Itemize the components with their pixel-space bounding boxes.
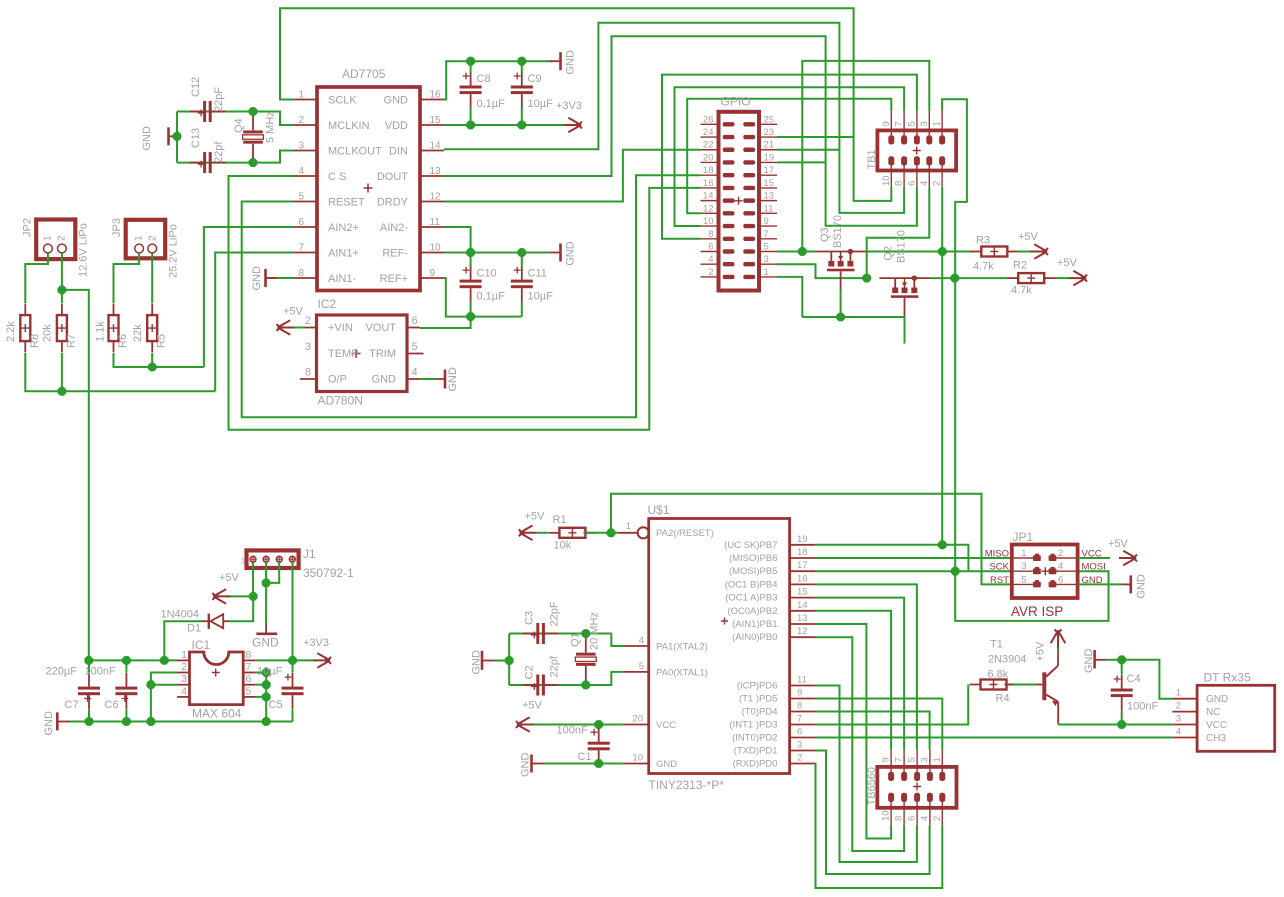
pin 4 DT Rx35 CH3 xyxy=(1172,737,1197,739)
pin 19 U$1 (UC SK)PB7 xyxy=(790,544,815,546)
svg-text:9: 9 xyxy=(764,216,769,227)
wire emitter rail to DT Rx35 VCC xyxy=(1058,724,1172,726)
wire TB1 pin10 to GPIO23 net xyxy=(854,137,892,201)
svg-text:11: 11 xyxy=(430,217,441,228)
svg-text:2: 2 xyxy=(1176,701,1181,712)
wire pin2 to TB6560 pin2 xyxy=(815,764,942,889)
svg-text:6: 6 xyxy=(797,727,802,738)
svg-text:16: 16 xyxy=(703,178,714,189)
capacitor C13 xyxy=(203,152,206,173)
svg-text:6: 6 xyxy=(906,181,917,186)
wire GPIO pin23 to junction xyxy=(777,136,854,138)
pin 11 AD7705 AIN2- xyxy=(420,226,444,228)
svg-text:C6: C6 xyxy=(105,699,119,711)
power +5V arrow near J1 xyxy=(212,589,230,604)
pin 10 AD7705 REF- xyxy=(420,252,444,254)
wire J1 pin2 to GND xyxy=(265,562,267,622)
svg-text:1: 1 xyxy=(932,757,943,762)
junction dot R7 bottom xyxy=(58,387,67,396)
wire J1 pin4 to +3V3 rail xyxy=(292,562,294,660)
pin 1 TB6560 top pad xyxy=(939,772,945,781)
wire Q2 drain row to R2 xyxy=(930,277,1007,279)
svg-text:J1: J1 xyxy=(303,547,316,561)
pin 2 GPIO left pad xyxy=(701,276,719,278)
svg-text:21: 21 xyxy=(764,140,775,151)
power +5V at R2 xyxy=(1069,271,1087,286)
svg-text:DOUT: DOUT xyxy=(377,171,408,183)
svg-text:JP3: JP3 xyxy=(111,218,123,237)
svg-text:GND: GND xyxy=(251,266,263,291)
pin 21 GPIO right pad xyxy=(759,149,777,151)
svg-text:20: 20 xyxy=(632,714,643,725)
wire TB1 pin4 to Q2 drain net xyxy=(867,188,930,279)
svg-text:(TXD)PD1: (TXD)PD1 xyxy=(734,746,778,757)
wire AD7705 pin9 REF+ down to bottom rail xyxy=(444,278,522,317)
wire C12 row to crystal top node and AD7705 pin2 xyxy=(177,111,253,113)
pin 2 U$1 (RXD)PD0 xyxy=(790,763,815,765)
pin 3 TB1 top pad xyxy=(926,135,932,144)
pin 4 IC2 GND xyxy=(407,378,420,380)
pin 7 GPIO right pad xyxy=(759,238,777,240)
pin 4 U$1 PA1(XTAL2) xyxy=(623,645,648,647)
svg-text:6: 6 xyxy=(246,673,252,685)
svg-text:2: 2 xyxy=(57,235,68,241)
svg-text:19: 19 xyxy=(797,534,808,545)
svg-text:3: 3 xyxy=(181,673,187,685)
svg-text:(T1 )PD5: (T1 )PD5 xyxy=(739,694,778,705)
pin 6 TB1 bottom pad xyxy=(914,156,920,165)
resistor R4 6.8k xyxy=(981,680,1007,690)
wire C9 rail connectors xyxy=(521,61,523,72)
svg-text:12: 12 xyxy=(430,192,442,203)
pin 8 TB1 bottom pad xyxy=(901,156,907,165)
wire AD7705 pin16 to C8/C9 GND rail xyxy=(444,61,552,99)
svg-text:C9: C9 xyxy=(528,73,542,85)
svg-text:10: 10 xyxy=(430,243,442,254)
svg-text:8: 8 xyxy=(305,367,311,379)
pin 8 IC2 O/P xyxy=(300,378,317,380)
junction dots C8/C9 rails xyxy=(466,57,475,66)
svg-text:3: 3 xyxy=(298,141,304,152)
junction dot pin19/SCK xyxy=(938,540,947,549)
svg-text:10µF: 10µF xyxy=(257,666,283,678)
wire +5V arrow to junction xyxy=(226,595,253,597)
wire left vertical joining C12/C13 xyxy=(176,112,178,163)
junction dot C4 bottom xyxy=(1117,720,1126,729)
svg-text:16: 16 xyxy=(797,573,808,584)
junction dots on +3V3 rail xyxy=(84,656,93,665)
wire AD7705 pin11 AIN2- to REF- rail xyxy=(444,227,471,253)
svg-text:C13: C13 xyxy=(190,128,202,148)
wire GND to DT Rx35 pin1 xyxy=(1122,660,1173,699)
wire GND bottom rail xyxy=(70,721,293,723)
pin 26 GPIO left pad xyxy=(701,123,719,125)
op-amp IC2 AD780N voltage reference box xyxy=(317,315,408,392)
power +5V at JP1 VCC xyxy=(1078,557,1110,559)
svg-text:1: 1 xyxy=(241,557,246,566)
capacitor C10 xyxy=(460,280,482,283)
svg-text:DIN: DIN xyxy=(389,145,408,157)
svg-text:C3: C3 xyxy=(524,611,536,625)
svg-text:15: 15 xyxy=(430,115,442,126)
svg-text:6: 6 xyxy=(412,315,418,327)
wire R6/R5 bottoms to AIN2+ net xyxy=(114,353,204,367)
svg-text:AIN2-: AIN2- xyxy=(380,222,408,234)
resistor R5 22k xyxy=(147,315,157,341)
pin 22 GPIO left pad xyxy=(701,149,719,151)
svg-text:7: 7 xyxy=(246,661,252,673)
wire TB1 pin8 to GPIO21 net xyxy=(839,150,904,213)
svg-text:22: 22 xyxy=(703,140,714,151)
svg-text:1: 1 xyxy=(626,521,631,532)
pin 19 GPIO right pad xyxy=(759,161,777,163)
capacitor C7 220uF xyxy=(78,687,100,690)
svg-text:1: 1 xyxy=(764,267,769,278)
wire D1 cathode to IC1 pin1 rail xyxy=(164,621,201,660)
capacitor C2 xyxy=(536,675,539,696)
svg-text:22k: 22k xyxy=(132,324,144,342)
transistor T1 base bar xyxy=(1042,672,1046,700)
connector TB1 2x5 header box xyxy=(877,130,956,170)
ground GND below J1 xyxy=(265,622,267,633)
svg-text:4: 4 xyxy=(298,166,304,177)
pin 20 U$1 VCC xyxy=(623,724,648,726)
wire C8 rail connectors xyxy=(470,61,472,72)
svg-text:9: 9 xyxy=(797,688,802,699)
svg-text:10µF: 10µF xyxy=(528,291,554,303)
svg-text:GND: GND xyxy=(1083,649,1095,674)
svg-text:15: 15 xyxy=(764,178,775,189)
svg-text:6: 6 xyxy=(907,816,918,821)
wire net AIN1+: AD7705 pin7 from R7/R8 junction xyxy=(215,253,293,392)
junction dot Q2 drain / TB1 pin4 xyxy=(862,274,871,283)
svg-text:GPIO: GPIO xyxy=(721,95,751,109)
junction dot R5 bottom xyxy=(148,363,157,372)
wire TB1 pin6 to GPIO19 net xyxy=(826,162,917,225)
wire net DRDY: AD7705 pin12 to GPIO pin22 xyxy=(444,150,701,202)
svg-text:22pf: 22pf xyxy=(213,141,225,163)
svg-text:17: 17 xyxy=(797,560,808,571)
svg-text:C7: C7 xyxy=(65,699,79,711)
svg-text:REF-: REF- xyxy=(382,247,408,259)
svg-text:NC: NC xyxy=(1206,707,1220,718)
pin 2 IC2 +VIN xyxy=(304,327,317,329)
pin 14 U$1 (OC0A)PB2 xyxy=(790,610,815,612)
transistor Q3 BS170 drain wire xyxy=(816,251,867,253)
wire pin12 to TB6560 pin8 xyxy=(815,637,904,851)
svg-text:R7: R7 xyxy=(66,334,78,348)
wire net AIN2+: AD7705 pin6 from R5/R6 junction xyxy=(204,227,293,367)
wire TB1 pin1 loop to MOSI vertical xyxy=(942,99,967,570)
ground GND at C12/C13 xyxy=(167,127,170,145)
pin 1 AD7705 SCLK xyxy=(293,99,317,101)
pin 5 TB6560 top pad xyxy=(914,772,920,781)
junction dot Q2 drain net / TB1 pin1 vertical xyxy=(950,274,959,283)
pin 5 GPIO right pad xyxy=(759,251,777,253)
svg-text:14: 14 xyxy=(430,141,442,152)
svg-text:20k: 20k xyxy=(42,324,54,342)
pin 5 AD7705 RESET xyxy=(293,201,317,203)
pin 1 GPIO right pad xyxy=(759,276,777,278)
svg-text:C5: C5 xyxy=(269,699,283,711)
svg-text:350792-1: 350792-1 xyxy=(303,566,354,580)
pin 3 U$1 (TXD)PD1 xyxy=(790,750,815,752)
svg-text:GND: GND xyxy=(1206,694,1228,705)
wire pin7 to R4 xyxy=(815,685,968,725)
pin 5 TB1 top pad xyxy=(914,135,920,144)
pin 3 AD7705 MCLKOUT xyxy=(293,150,317,152)
resistor R8 2.2k xyxy=(20,315,30,341)
svg-text:23: 23 xyxy=(764,127,775,138)
svg-text:GND: GND xyxy=(43,711,55,736)
svg-text:PA1(XTAL2): PA1(XTAL2) xyxy=(656,642,708,653)
svg-text:SCLK: SCLK xyxy=(328,94,357,106)
svg-text:20: 20 xyxy=(703,152,714,163)
wire pin16 to TB6560 pin5 xyxy=(815,584,917,749)
svg-text:(INT1 )PD3: (INT1 )PD3 xyxy=(729,720,777,731)
svg-text:R8: R8 xyxy=(29,334,41,348)
wire R1/reset net to JP1 RST xyxy=(611,494,1012,585)
wire VCC to pin20 xyxy=(599,724,624,726)
svg-text:5: 5 xyxy=(412,341,418,353)
svg-text:(OC0A)PB2: (OC0A)PB2 xyxy=(727,606,777,617)
pin 9 U$1 (T1 )PD5 xyxy=(790,698,815,700)
crystal Q4 5MHz xyxy=(252,112,254,131)
svg-text:2N3904: 2N3904 xyxy=(988,654,1027,666)
svg-text:7: 7 xyxy=(298,243,304,254)
diode D1 1N4004 xyxy=(208,614,210,629)
wire R3 right to +5V xyxy=(1018,251,1031,253)
svg-text:4.7k: 4.7k xyxy=(973,261,994,273)
pin 10 GPIO left pad xyxy=(701,225,719,227)
svg-text:Q1: Q1 xyxy=(570,632,582,647)
svg-text:4.7k: 4.7k xyxy=(1011,285,1032,297)
pin 18 GPIO left pad xyxy=(701,174,719,176)
pin 1 DT Rx35 GND xyxy=(1172,698,1197,700)
connector J1 350792-1 xyxy=(247,550,299,568)
ground GND at C3/C2 xyxy=(481,651,484,670)
wire MOSI loop to JP1 pin4 xyxy=(955,571,1108,621)
svg-text:3: 3 xyxy=(919,757,930,762)
wire net SCK: pin19 to JP1 with jog xyxy=(815,544,942,546)
transistor Q3 source lead xyxy=(840,271,842,289)
svg-text:AIN2+: AIN2+ xyxy=(328,222,359,234)
pin 16 GPIO left pad xyxy=(701,187,719,189)
svg-text:13: 13 xyxy=(764,191,775,202)
svg-text:5: 5 xyxy=(246,685,252,697)
svg-text:PA2(/RESET): PA2(/RESET) xyxy=(656,528,714,539)
node crystal bottom xyxy=(249,158,258,167)
wire REF- rail pin10 to GND xyxy=(444,252,550,254)
svg-text:22pF: 22pF xyxy=(549,601,561,626)
pin 3 JP1 SCK xyxy=(1012,570,1033,572)
pin 3 TB6560 top pad xyxy=(927,772,933,781)
wire JP2 pin2 net to MAX604 rail (long vertical) xyxy=(62,290,89,661)
ground GND at AD7705 pin8 AIN1- xyxy=(264,269,267,287)
svg-text:+5V: +5V xyxy=(1035,641,1047,662)
ground GND bottom left xyxy=(56,712,59,730)
svg-text:AIN1+: AIN1+ xyxy=(328,247,359,259)
power +5V at R3 xyxy=(1030,244,1048,259)
pin 15 AD7705 VDD xyxy=(420,124,444,126)
ground GND at JP1 pin6 xyxy=(1078,583,1121,585)
svg-text:19: 19 xyxy=(764,152,775,163)
wire VDD rail pin15 to +3V3 xyxy=(444,124,564,126)
power +5V arrow at IC2 +VIN xyxy=(277,320,295,335)
svg-text:R5: R5 xyxy=(156,334,168,348)
svg-text:3: 3 xyxy=(797,740,802,751)
svg-text:GND: GND xyxy=(520,753,532,778)
junction dot +5V J1 xyxy=(249,592,258,601)
svg-text:14: 14 xyxy=(703,191,714,202)
svg-text:1: 1 xyxy=(43,235,54,241)
pin 1 IC1 left stub xyxy=(177,659,190,661)
wire net CH3: pin6 to DT Rx35 pin4 xyxy=(815,737,1172,739)
svg-text:C8: C8 xyxy=(477,73,491,85)
svg-text:1: 1 xyxy=(932,121,943,126)
pin 17 GPIO right pad xyxy=(759,174,777,176)
wire C2 rail to U$1 pin5 xyxy=(509,684,586,686)
svg-text:C12: C12 xyxy=(190,77,202,97)
wire pin9 to TB6560 pin1 xyxy=(815,699,942,750)
power +3V3 arrow at VDD xyxy=(564,118,582,133)
svg-text:DT Rx35: DT Rx35 xyxy=(1204,671,1251,685)
wire JP2 pin1 to R8 xyxy=(25,253,48,304)
pin 17 U$1 (MOSI)PB5 xyxy=(790,570,815,572)
svg-text:BS170: BS170 xyxy=(896,230,908,263)
svg-text:GND: GND xyxy=(252,636,279,650)
svg-text:BS170: BS170 xyxy=(832,215,844,248)
svg-text:(OC1 A)PB3: (OC1 A)PB3 xyxy=(725,593,777,604)
svg-text:4: 4 xyxy=(639,635,644,646)
junction dot VCC/C1 xyxy=(594,720,603,729)
connector TB6560 2x5 header box xyxy=(877,767,956,808)
wire GPIO pin1 to GND rail xyxy=(777,277,802,317)
pin 24 GPIO left pad xyxy=(701,136,719,138)
svg-text:2: 2 xyxy=(148,235,159,241)
svg-text:11: 11 xyxy=(764,203,774,214)
svg-text:MAX 604: MAX 604 xyxy=(192,707,242,721)
resistor R6 1.1k xyxy=(109,315,119,341)
svg-text:IC2: IC2 xyxy=(318,297,337,311)
wire net GPIO8 to TB1 pin5 xyxy=(662,75,917,239)
svg-text:5: 5 xyxy=(907,757,918,762)
pin 6 JP1 GND xyxy=(1056,583,1077,585)
svg-text:0,1µF: 0,1µF xyxy=(477,291,506,303)
pin 4 TB1 bottom pad xyxy=(926,156,932,165)
wire T1 collector to +5V xyxy=(1057,648,1059,653)
svg-text:1: 1 xyxy=(1021,548,1026,559)
pin 8 GPIO left pad xyxy=(701,238,719,240)
pin 6 GPIO left pad xyxy=(701,251,719,253)
svg-text:(MISO)PB6: (MISO)PB6 xyxy=(729,553,778,564)
pin 3 IC1 left stub xyxy=(177,684,190,686)
svg-text:15: 15 xyxy=(797,587,808,598)
pin 8 TB6560 bottom pad xyxy=(901,793,907,802)
svg-text:(MOSI)PB5: (MOSI)PB5 xyxy=(729,566,778,577)
svg-text:CH3: CH3 xyxy=(1206,733,1226,744)
svg-text:R2: R2 xyxy=(1013,260,1027,272)
svg-text:+5V: +5V xyxy=(1057,257,1078,269)
pin 14 GPIO left pad xyxy=(701,200,719,202)
pin 2 JP1 VCC xyxy=(1056,557,1077,559)
capacitor C12 xyxy=(203,101,206,122)
svg-text:8: 8 xyxy=(894,181,905,186)
svg-text:C4: C4 xyxy=(1127,673,1141,685)
svg-text:U$1: U$1 xyxy=(648,503,670,517)
junction dot C12/C13 GND xyxy=(173,132,182,141)
svg-text:13: 13 xyxy=(797,613,808,624)
wire TB1 pin2 down to SCK vertical xyxy=(941,188,943,545)
svg-text:0,1µF: 0,1µF xyxy=(477,98,506,110)
svg-text:REF+: REF+ xyxy=(380,273,408,285)
svg-text:1: 1 xyxy=(134,235,145,241)
svg-text:+5V: +5V xyxy=(522,700,543,712)
svg-text:8: 8 xyxy=(708,229,713,240)
pin 4 JP1 MOSI xyxy=(1056,570,1077,572)
wire GPIO pin5 row to R3 (Q3 drain net) xyxy=(777,251,816,253)
svg-text:220µF: 220µF xyxy=(46,666,78,678)
microcontroller U$1 TINY2313 box xyxy=(649,519,790,774)
svg-text:8: 8 xyxy=(894,816,905,821)
capacitor C11 xyxy=(511,280,533,283)
svg-text:12: 12 xyxy=(703,203,714,214)
svg-text:(AIN0)PB0: (AIN0)PB0 xyxy=(732,632,777,643)
resistor R7 20k xyxy=(57,315,67,341)
pin 13 U$1 (AIN1)PB1 xyxy=(790,623,815,625)
pin 6 TB6560 bottom pad xyxy=(914,793,920,802)
crystal Q1 20MHz xyxy=(585,634,587,653)
svg-text:GND: GND xyxy=(141,126,153,151)
svg-text:AVR ISP: AVR ISP xyxy=(1011,604,1063,619)
wire +3V3 rail left segment xyxy=(89,659,177,661)
svg-text:GND: GND xyxy=(565,241,577,266)
svg-text:1N4004: 1N4004 xyxy=(161,609,200,621)
pin 3 DT Rx35 VCC xyxy=(1172,724,1197,726)
svg-text:+VIN: +VIN xyxy=(328,322,353,334)
svg-text:(RXD)PD0: (RXD)PD0 xyxy=(733,759,778,770)
pin 9 GPIO right pad xyxy=(759,225,777,227)
pin 16 U$1 (OC1 B)PB4 xyxy=(790,583,815,585)
svg-text:5: 5 xyxy=(639,661,644,672)
svg-text:7: 7 xyxy=(894,757,905,762)
svg-text:VDD: VDD xyxy=(385,120,408,132)
pin 9 TB6560 top pad xyxy=(888,772,894,781)
svg-text:TINY2313-*P*: TINY2313-*P* xyxy=(649,778,725,792)
svg-text:C11: C11 xyxy=(528,268,547,280)
svg-text:R4: R4 xyxy=(996,693,1010,705)
wire pin15 to TB6560 pin7 xyxy=(815,598,904,750)
pin 15 GPIO right pad xyxy=(759,187,777,189)
wire J1 pin1 to +5V junction xyxy=(252,562,254,596)
junction dot Q3 source on GND rail xyxy=(836,313,845,322)
power +3V3 arrow right of IC1 xyxy=(313,653,331,668)
wire IC1 pin2/pin3 to GND rail xyxy=(151,673,177,722)
svg-text:TB1: TB1 xyxy=(866,149,878,169)
wire GND rail below Q3/Q2 xyxy=(802,316,904,318)
capacitor C9 xyxy=(511,86,533,89)
junction dot C1 bottom xyxy=(594,759,603,768)
svg-text:MCLKIN: MCLKIN xyxy=(328,120,370,132)
ground GND at IC2 pin4 xyxy=(444,370,447,389)
pin 13 GPIO right pad xyxy=(759,200,777,202)
svg-text:24: 24 xyxy=(703,127,714,138)
svg-text:4: 4 xyxy=(708,254,713,265)
svg-text:5: 5 xyxy=(298,192,304,203)
pin 8 AD7705 AIN1- xyxy=(293,277,317,279)
wire net MOSI: pin17 row to JP1 pin3 row xyxy=(815,570,1012,572)
svg-text:10: 10 xyxy=(632,753,643,764)
